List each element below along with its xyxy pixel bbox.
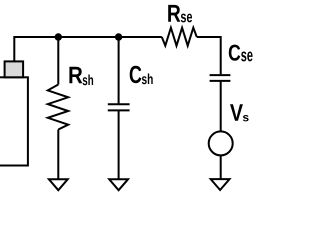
label R_se main	[168, 5, 180, 22]
node (top rail / R_sh junction)	[55, 33, 62, 40]
ground (V_s branch)	[211, 179, 230, 190]
node (top rail / C_sh junction)	[115, 33, 122, 40]
wire R_sh to ground	[57, 130, 59, 180]
capacitor C_se	[210, 74, 231, 76]
resistor R_sh	[48, 85, 68, 130]
capacitor C_sh	[108, 103, 130, 105]
electrode body (left, cut off)	[0, 77, 28, 165]
wire top rail to C_sh	[118, 37, 120, 104]
electrode cap	[5, 61, 24, 77]
label C_sh sub	[142, 74, 153, 85]
label C_sh main	[130, 66, 142, 84]
label V_s main	[230, 104, 243, 120]
ground (R_sh branch)	[49, 179, 68, 190]
label R_se sub	[181, 14, 192, 23]
label C_se main	[229, 45, 241, 61]
label R_sh sub	[83, 75, 93, 86]
label V_s sub	[243, 115, 249, 121]
wire top rail to R_sh	[57, 37, 59, 85]
wire C_se to V_s	[220, 81, 222, 131]
resistor R_se	[162, 28, 197, 46]
wire V_s to ground	[220, 155, 222, 179]
wire C_sh to ground	[118, 110, 120, 179]
ground (C_sh branch)	[109, 179, 128, 190]
wire electrode to top rail	[14, 37, 162, 61]
label R_sh main	[69, 67, 82, 83]
source V_s	[209, 131, 233, 155]
wire R_se right lead to C_se	[197, 37, 221, 74]
label C_se sub	[241, 51, 252, 61]
